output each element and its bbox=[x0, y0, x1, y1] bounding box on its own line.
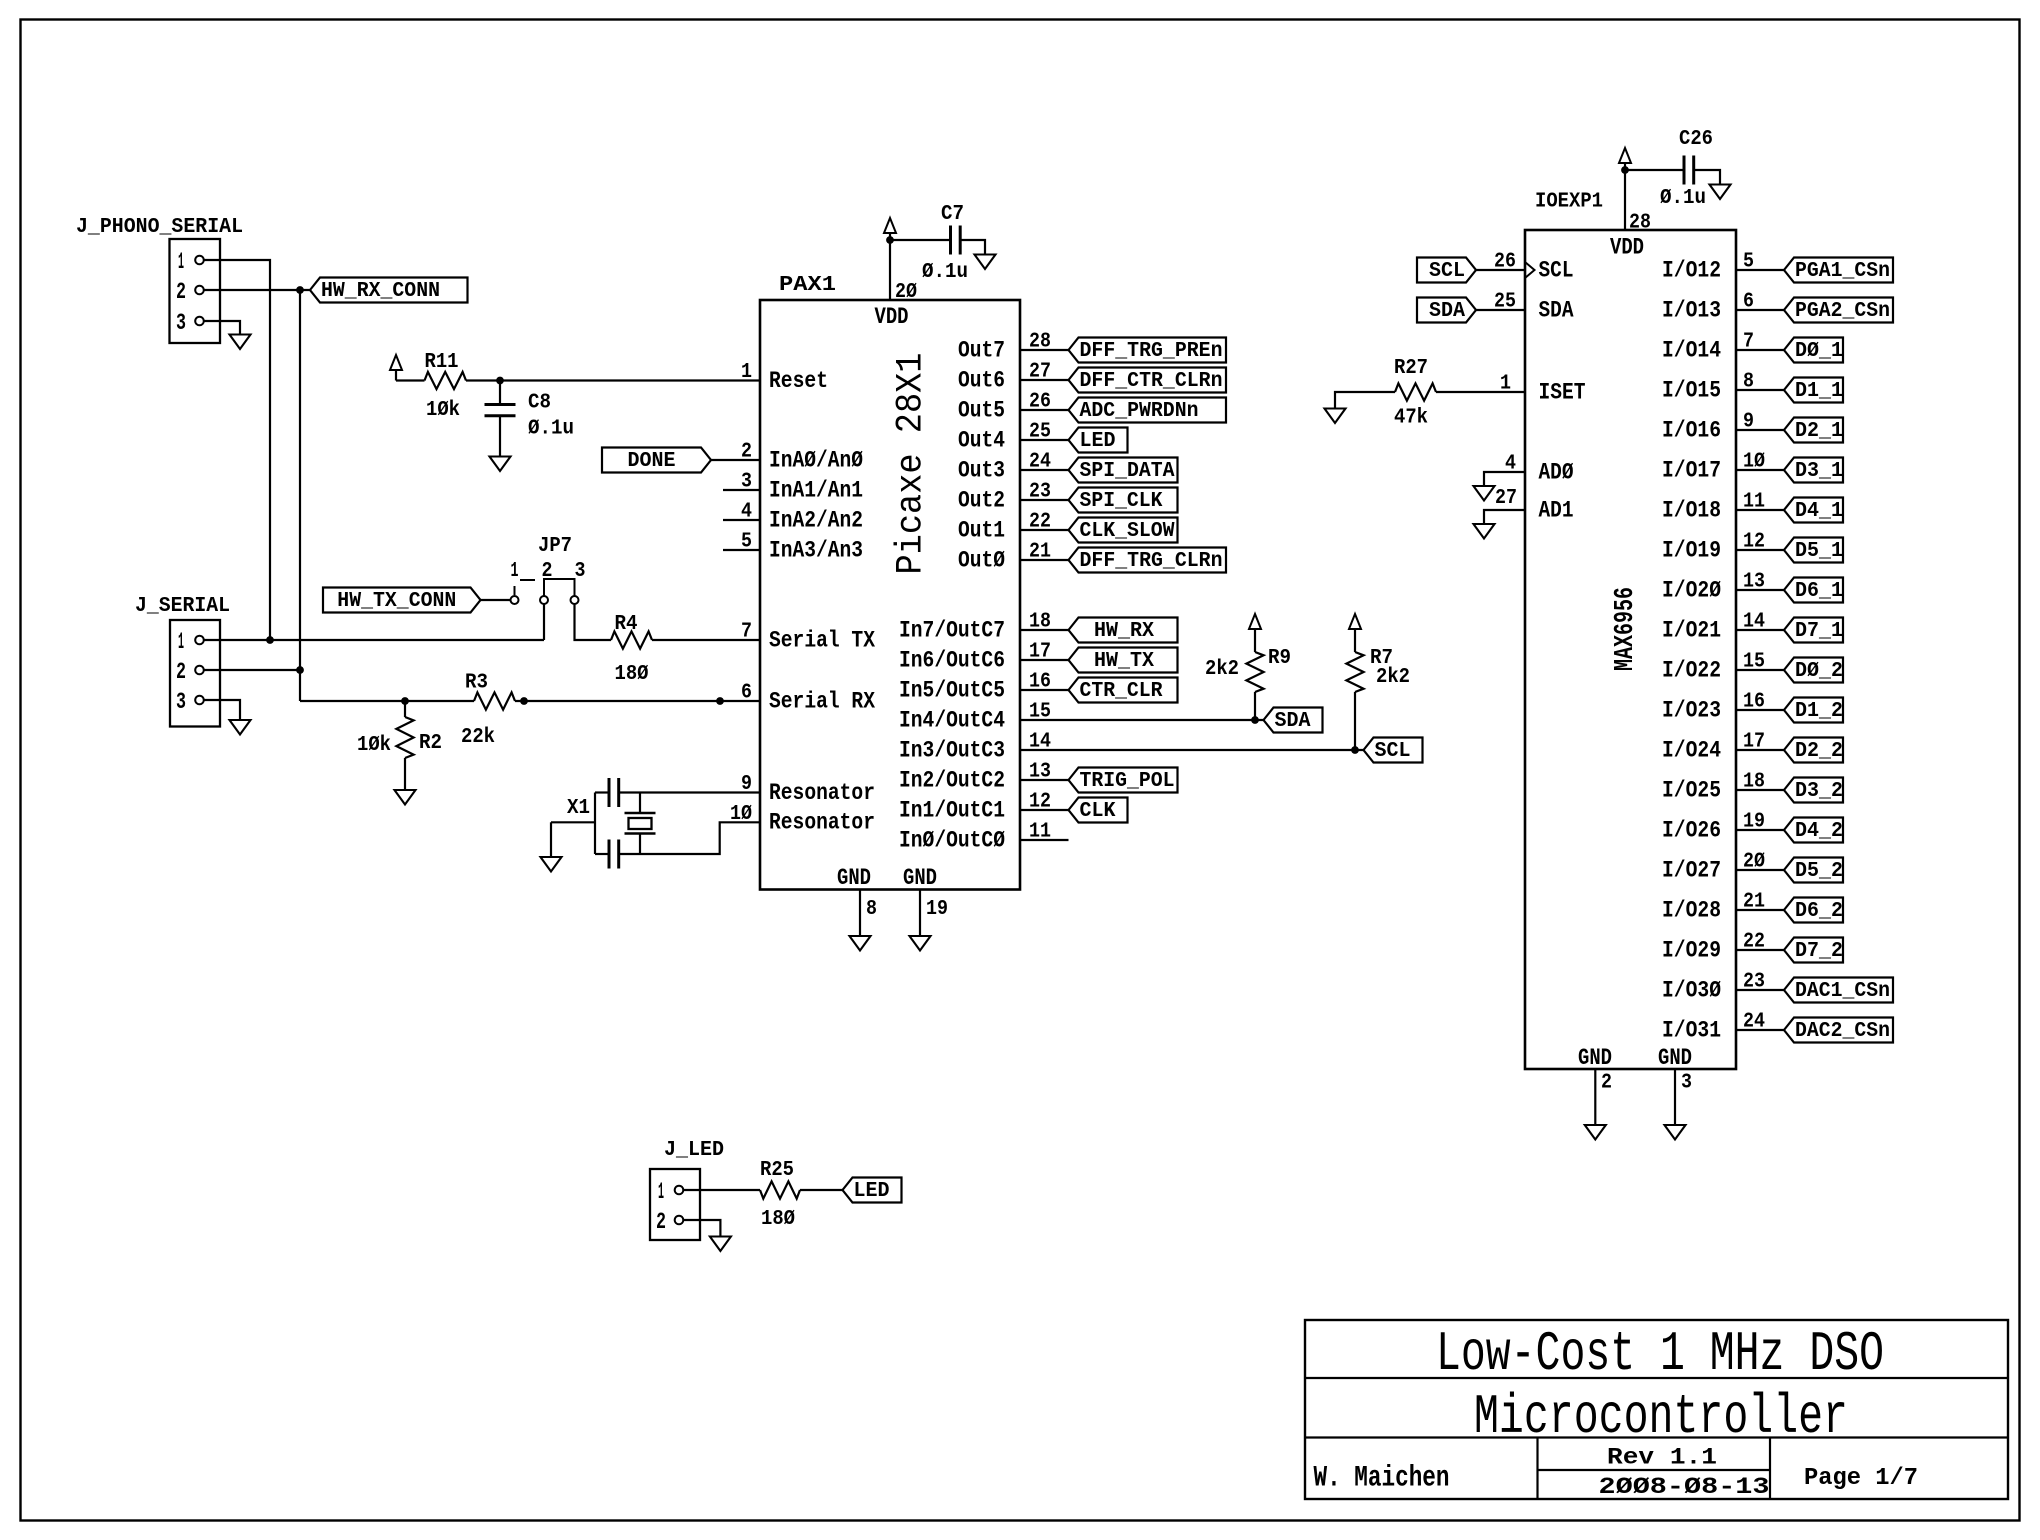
value 0.1u of C8 bbox=[528, 418, 574, 441]
svg-text:I/O16: I/O16 bbox=[1662, 417, 1721, 443]
connector J_PHONO_SERIAL body bbox=[170, 239, 221, 343]
svg-text:7: 7 bbox=[741, 621, 752, 644]
resonator bottom capacitor plates bbox=[609, 840, 619, 869]
wire PAX1 pin 17 to flag bbox=[1020, 659, 1069, 661]
connector J_PHONO_SERIAL pin 1 bbox=[178, 249, 204, 275]
svg-text:Low-Cost 1 MHz DSO: Low-Cost 1 MHz DSO bbox=[1436, 1322, 1884, 1386]
svg-text:Page 1/7: Page 1/7 bbox=[1804, 1465, 1918, 1492]
svg-text:19: 19 bbox=[926, 898, 948, 921]
net flag D1_2 bbox=[1784, 698, 1843, 724]
svg-text:3: 3 bbox=[1681, 1072, 1692, 1095]
pin 9 I/O16 of IOEXP1 bbox=[1662, 411, 1754, 444]
svg-text:GND: GND bbox=[1658, 1045, 1692, 1071]
svg-text:CTR_CLR: CTR_CLR bbox=[1080, 680, 1163, 703]
pin 6 I/O13 of IOEXP1 bbox=[1662, 291, 1754, 324]
pin 24 Out3 of PAX1 bbox=[958, 451, 1051, 484]
value 10k of R2 bbox=[357, 734, 391, 757]
pin 23 I/O30 of IOEXP1 bbox=[1662, 971, 1765, 1004]
ground at C7 bbox=[975, 255, 996, 270]
wire IOEXP1 pin 12 to flag bbox=[1736, 549, 1784, 551]
IC PAX1 refdes label bbox=[779, 274, 836, 297]
svg-text:VDD: VDD bbox=[875, 304, 909, 330]
svg-text:9: 9 bbox=[741, 773, 752, 796]
svg-text:D6_1: D6_1 bbox=[1795, 580, 1843, 603]
svg-text:CLK_SLOW: CLK_SLOW bbox=[1080, 520, 1175, 543]
net flag D6_1 bbox=[1784, 578, 1843, 604]
svg-text:D5_2: D5_2 bbox=[1795, 860, 1843, 883]
jumper JP7 pin 2 pad bbox=[540, 596, 548, 604]
svg-text:I/O27: I/O27 bbox=[1662, 857, 1721, 883]
svg-text:I/O18: I/O18 bbox=[1662, 497, 1721, 523]
resistor R2 bbox=[396, 717, 413, 758]
wire resonator bottom net bbox=[595, 853, 609, 855]
svg-text:I/O21: I/O21 bbox=[1662, 617, 1721, 643]
svg-text:SDA: SDA bbox=[1539, 297, 1574, 323]
wire PAX1 In3/OutC3 SCL net bbox=[1020, 749, 1364, 751]
wire VDD to R11 bbox=[396, 379, 425, 381]
pin 23 Out2 of PAX1 bbox=[958, 481, 1051, 514]
jumper JP7 label bbox=[538, 535, 572, 558]
junction HW_RX_CONN node bbox=[296, 286, 304, 294]
pin 10 Resonator of PAX1 bbox=[730, 803, 875, 836]
svg-text:D1_2: D1_2 bbox=[1795, 700, 1843, 723]
svg-text:Ø.1u: Ø.1u bbox=[528, 418, 574, 441]
connector J_SERIAL body bbox=[170, 620, 220, 727]
wire junction to C8 bbox=[499, 381, 501, 405]
net flag D2_2 bbox=[1784, 738, 1843, 764]
title block divider line 1 bbox=[1305, 1377, 2008, 1379]
net flag D7_2 bbox=[1784, 938, 1843, 964]
svg-text:C26: C26 bbox=[1679, 128, 1713, 151]
svg-text:D3_2: D3_2 bbox=[1795, 780, 1843, 803]
svg-text:C8: C8 bbox=[528, 392, 551, 415]
ground at X1 bbox=[541, 857, 562, 872]
svg-text:GND: GND bbox=[903, 865, 937, 891]
net flag HW_TX_CONN bbox=[323, 588, 481, 614]
svg-text:2Ø: 2Ø bbox=[895, 281, 917, 304]
svg-text:LED: LED bbox=[854, 1180, 890, 1203]
jumper JP7 pin 3 pad bbox=[571, 596, 579, 604]
IC PAX1 Picaxe 28X1 body bbox=[760, 300, 1020, 890]
svg-text:28: 28 bbox=[1629, 212, 1651, 235]
net flag SDA at IOEXP1 bbox=[1417, 298, 1476, 324]
svg-text:R9: R9 bbox=[1268, 647, 1291, 670]
value 2k2 of R9 bbox=[1205, 658, 1239, 681]
pin 6 Serial RX of PAX1 bbox=[741, 682, 875, 715]
svg-text:D5_1: D5_1 bbox=[1795, 540, 1843, 563]
wire IOEXP1 pin 8 to flag bbox=[1736, 389, 1784, 391]
svg-text:1: 1 bbox=[741, 361, 752, 384]
capacitor C7 bbox=[951, 226, 961, 255]
wire J_LED pin1 to R25 bbox=[683, 1189, 760, 1191]
wire IOEXP1 VDD stub pin 28 bbox=[1624, 170, 1626, 230]
svg-text:DFF_CTR_CLRn: DFF_CTR_CLRn bbox=[1080, 370, 1223, 393]
wire R9 to SDA bbox=[1254, 692, 1256, 720]
svg-text:MAX6956: MAX6956 bbox=[1611, 587, 1641, 671]
svg-text:I/O31: I/O31 bbox=[1662, 1017, 1721, 1043]
capacitor C26 bbox=[1684, 156, 1694, 185]
svg-text:1Øk: 1Øk bbox=[357, 734, 391, 757]
svg-text:ADC_PWRDNn: ADC_PWRDNn bbox=[1080, 400, 1199, 423]
svg-text:Out6: Out6 bbox=[958, 367, 1005, 393]
crystal element of X1 bbox=[625, 813, 656, 834]
wire PAX1 pin 13 to flag bbox=[1020, 779, 1069, 781]
svg-text:2k2: 2k2 bbox=[1205, 658, 1239, 681]
svg-text:I/O24: I/O24 bbox=[1662, 737, 1721, 763]
pin number 28 of IOEXP1 bbox=[1629, 212, 1651, 235]
svg-text:1: 1 bbox=[178, 629, 184, 655]
ground at C8 bbox=[490, 457, 511, 472]
svg-text:1: 1 bbox=[1500, 373, 1511, 396]
label R25 bbox=[760, 1159, 794, 1182]
pin 16 I/O23 of IOEXP1 bbox=[1662, 691, 1765, 724]
junction VDD/C26 bbox=[1621, 166, 1629, 174]
title block rev/date divider bbox=[1538, 1469, 1771, 1471]
pin 24 I/O31 of IOEXP1 bbox=[1662, 1011, 1765, 1044]
junction Reset/C8 node bbox=[496, 377, 504, 385]
svg-text:In4/OutC4: In4/OutC4 bbox=[899, 707, 1005, 733]
svg-text:Out1: Out1 bbox=[958, 517, 1005, 543]
net flag D5_2 bbox=[1784, 858, 1843, 884]
connector J_LED label bbox=[664, 1139, 724, 1162]
net flag DAC1_CSn bbox=[1784, 978, 1893, 1004]
svg-text:Ø.1u: Ø.1u bbox=[922, 261, 968, 284]
svg-text:3: 3 bbox=[176, 310, 186, 336]
svg-text:W. Maichen: W. Maichen bbox=[1314, 1462, 1450, 1496]
pin 5 I/O12 of IOEXP1 bbox=[1662, 251, 1754, 284]
svg-text:In5/OutC5: In5/OutC5 bbox=[899, 677, 1005, 703]
pin name VDD of PAX1 bbox=[875, 304, 909, 330]
svg-text:I/O25: I/O25 bbox=[1662, 777, 1721, 803]
connector J_PHONO_SERIAL pin 3 bbox=[176, 310, 204, 336]
capacitor C8 bbox=[485, 405, 516, 416]
net flag D2_1 bbox=[1784, 418, 1843, 444]
net flag DFF_TRG_CLRn bbox=[1069, 548, 1227, 574]
wire PAX1 pin 22 to flag bbox=[1020, 529, 1069, 531]
power VDD at R11 bbox=[390, 355, 402, 381]
ground at AD1 bbox=[1474, 524, 1495, 539]
jumper JP7 pin number 2 bbox=[542, 560, 553, 583]
pin 4 InA2/An2 of PAX1 bbox=[741, 501, 863, 534]
pin 7 Serial TX of PAX1 bbox=[741, 621, 875, 654]
net flag D4_1 bbox=[1784, 498, 1843, 524]
svg-text:TRIG_POL: TRIG_POL bbox=[1080, 770, 1175, 793]
net flag PGA1_CSn bbox=[1784, 258, 1893, 284]
junction J_SERIAL pin2 / trunk bbox=[296, 666, 304, 674]
pin 22 Out1 of PAX1 bbox=[958, 511, 1051, 544]
wire resonator left trunk bbox=[594, 793, 596, 855]
pin 11 In0/OutC0 of PAX1 bbox=[899, 821, 1051, 854]
svg-text:InA1/An1: InA1/An1 bbox=[769, 477, 863, 503]
ground at AD0 bbox=[1474, 486, 1495, 501]
svg-text:3: 3 bbox=[176, 689, 186, 715]
svg-text:HW_RX_CONN: HW_RX_CONN bbox=[321, 280, 440, 303]
wire R2 to ground bbox=[404, 758, 406, 790]
net flag LED bbox=[1069, 428, 1128, 454]
net flag D3_1 bbox=[1784, 458, 1843, 484]
pin 2 InA0/An0 of PAX1 bbox=[741, 441, 863, 474]
wire R4 to PAX1 Serial TX bbox=[652, 639, 760, 641]
svg-text:R4: R4 bbox=[615, 613, 638, 636]
svg-text:Ø.1u: Ø.1u bbox=[1660, 187, 1706, 210]
pin 8 I/O15 of IOEXP1 bbox=[1662, 371, 1754, 404]
wire J_SERIAL pin2 bbox=[204, 669, 300, 671]
svg-text:In7/OutC7: In7/OutC7 bbox=[899, 617, 1005, 643]
svg-text:X1: X1 bbox=[567, 797, 590, 820]
pin 21 Out0 of PAX1 bbox=[958, 541, 1051, 574]
net flag SCL bbox=[1364, 738, 1423, 764]
svg-text:R27: R27 bbox=[1394, 357, 1428, 380]
svg-text:I/O2Ø: I/O2Ø bbox=[1662, 577, 1721, 603]
net flag PGA2_CSn bbox=[1784, 298, 1893, 324]
svg-text:D1_1: D1_1 bbox=[1795, 380, 1843, 403]
wire X1 ground drop bbox=[550, 822, 552, 857]
svg-text:2: 2 bbox=[741, 441, 752, 464]
label R7 bbox=[1370, 647, 1393, 670]
wire R25 to LED flag bbox=[800, 1189, 843, 1191]
pin 4 AD0 of IOEXP1 bbox=[1505, 453, 1574, 486]
wire C7 to ground bbox=[960, 240, 985, 255]
wire PAX1 pin 27 to flag bbox=[1020, 379, 1069, 381]
net flag CTR_CLR bbox=[1069, 678, 1178, 704]
svg-text:In3/OutC3: In3/OutC3 bbox=[899, 737, 1005, 763]
resistor R3 bbox=[474, 692, 515, 709]
power VDD at R9 bbox=[1249, 614, 1261, 629]
title text Low-Cost 1 MHz DSO bbox=[1436, 1322, 1884, 1386]
net flag LED at J_LED bbox=[843, 1178, 902, 1204]
jumper JP7 pin 1 pad bbox=[511, 596, 519, 604]
junction R2 node bbox=[401, 697, 409, 705]
svg-text:D4_2: D4_2 bbox=[1795, 820, 1843, 843]
ground at C26 bbox=[1710, 185, 1731, 200]
wire HW_TX_CONN to JP7 pin1 bbox=[481, 599, 511, 601]
resistor R27 bbox=[1395, 383, 1436, 400]
resistor R7 bbox=[1346, 652, 1363, 692]
svg-text:6: 6 bbox=[741, 682, 752, 705]
pin 26 Out5 of PAX1 bbox=[958, 391, 1051, 424]
pin 28 Out7 of PAX1 bbox=[958, 331, 1051, 364]
wire top cap to PAX1 pin9 bbox=[619, 791, 760, 793]
net flag SDA bbox=[1264, 708, 1323, 734]
wire JP7 pin2 down to serial TX net bbox=[543, 604, 545, 640]
wire PAX1 pin 24 to flag bbox=[1020, 469, 1069, 471]
svg-text:D7_2: D7_2 bbox=[1795, 940, 1843, 963]
wire SCL flag to IOEXP1 bbox=[1475, 269, 1526, 271]
svg-text:J_PHONO_SERIAL: J_PHONO_SERIAL bbox=[76, 216, 243, 239]
junction SCL/R7 bbox=[1351, 746, 1359, 754]
svg-text:R2: R2 bbox=[419, 732, 442, 755]
svg-text:18Ø: 18Ø bbox=[761, 1208, 795, 1231]
pin 2 GND of IOEXP1 bbox=[1578, 1045, 1612, 1095]
svg-text:D4_1: D4_1 bbox=[1795, 500, 1843, 523]
pin 10 I/O17 of IOEXP1 bbox=[1662, 451, 1765, 484]
rev text Rev 1.1 bbox=[1607, 1445, 1717, 1471]
svg-text:GND: GND bbox=[1578, 1045, 1612, 1071]
svg-text:DØ_1: DØ_1 bbox=[1795, 340, 1843, 363]
wire IOEXP1 pin 24 to flag bbox=[1736, 1029, 1784, 1031]
wire IOEXP1 GND3 stub bbox=[1674, 1069, 1676, 1125]
connector J_LED body bbox=[650, 1169, 700, 1240]
resonator X1 label bbox=[567, 797, 590, 820]
svg-text:SCL: SCL bbox=[1375, 740, 1411, 763]
pin 15 I/O22 of IOEXP1 bbox=[1662, 651, 1765, 684]
connector J_SERIAL pin 2 bbox=[176, 659, 204, 685]
pin 15 In4/OutC4 of PAX1 bbox=[899, 701, 1051, 734]
wire PAX1 pin 16 to flag bbox=[1020, 689, 1069, 691]
wire IOEXP1 pin 10 to flag bbox=[1736, 469, 1784, 471]
svg-text:Out4: Out4 bbox=[958, 427, 1005, 453]
svg-text:1Øk: 1Øk bbox=[426, 399, 460, 422]
pin 3 InA1/An1 of PAX1 bbox=[741, 471, 863, 504]
wire AD0 to ground bbox=[1484, 472, 1525, 486]
svg-text:Out5: Out5 bbox=[958, 397, 1005, 423]
wire PAX1 pin 23 to flag bbox=[1020, 499, 1069, 501]
value 180 of R25 bbox=[761, 1208, 795, 1231]
junction J_SERIAL pin1 / J_PHONO pin1 bbox=[266, 636, 274, 644]
svg-text:ISET: ISET bbox=[1539, 379, 1586, 405]
label C7 bbox=[941, 203, 964, 226]
svg-text:JP7: JP7 bbox=[538, 535, 572, 558]
pin 22 I/O29 of IOEXP1 bbox=[1662, 931, 1765, 964]
IC IOEXP1 part name MAX6956 bbox=[1611, 587, 1641, 671]
pin 1 ISET of IOEXP1 bbox=[1500, 373, 1586, 406]
svg-text:I/O15: I/O15 bbox=[1662, 377, 1721, 403]
svg-text:Serial RX: Serial RX bbox=[769, 688, 875, 714]
wire PAX1 pin 26 to flag bbox=[1020, 409, 1069, 411]
title block vertical divider right bbox=[1769, 1438, 1771, 1500]
wire R7 to SCL bbox=[1354, 692, 1356, 750]
svg-text:CLK: CLK bbox=[1080, 800, 1116, 823]
pin number 20 of PAX1 bbox=[895, 281, 917, 304]
net flag D6_2 bbox=[1784, 898, 1843, 924]
net flag D5_1 bbox=[1784, 538, 1843, 564]
pin 16 In5/OutC5 of PAX1 bbox=[899, 671, 1051, 704]
svg-text:I/O19: I/O19 bbox=[1662, 537, 1721, 563]
wire C8 to ground bbox=[499, 416, 501, 457]
ground at R27 bbox=[1325, 409, 1346, 424]
value 0.1u of C26 bbox=[1660, 187, 1706, 210]
wire IOEXP1 pin 15 to flag bbox=[1736, 669, 1784, 671]
pin 17 I/O24 of IOEXP1 bbox=[1662, 731, 1765, 764]
pin 12 In1/OutC1 of PAX1 bbox=[899, 791, 1051, 824]
pin 7 I/O14 of IOEXP1 bbox=[1662, 331, 1754, 364]
wire J_PHONO pin1 to vertical bbox=[204, 260, 270, 640]
date text 2008-08-13 bbox=[1599, 1474, 1770, 1500]
svg-text:AD1: AD1 bbox=[1539, 497, 1574, 523]
svg-text:InA3/An3: InA3/An3 bbox=[769, 537, 863, 563]
svg-text:Out3: Out3 bbox=[958, 457, 1005, 483]
svg-text:SPI_CLK: SPI_CLK bbox=[1080, 490, 1163, 513]
jumper JP7 closed bracket 2-3 bbox=[544, 579, 575, 596]
svg-text:HW_TX: HW_TX bbox=[1094, 650, 1154, 673]
svg-text:LED: LED bbox=[1080, 430, 1116, 453]
wire stub PAX1 pin at y550 bbox=[723, 549, 760, 551]
svg-text:D6_2: D6_2 bbox=[1795, 900, 1843, 923]
ground at J_SERIAL pin 3 bbox=[230, 720, 251, 735]
svg-text:InØ/OutCØ: InØ/OutCØ bbox=[899, 827, 1005, 853]
wire trunk to Serial RX run bbox=[300, 700, 474, 702]
wire C26 to ground bbox=[1694, 170, 1720, 185]
ground at R2 bbox=[395, 790, 416, 805]
net flag DFF_TRG_PREn bbox=[1069, 338, 1227, 364]
pin name VDD of IOEXP1 bbox=[1610, 235, 1644, 261]
net flag SPI_DATA bbox=[1069, 458, 1178, 484]
svg-text:InA2/An2: InA2/An2 bbox=[769, 507, 863, 533]
wire PAX1 In4/OutC4 SDA net bbox=[1020, 719, 1264, 721]
net flag HW_RX bbox=[1069, 618, 1178, 644]
junction Serial RX near pin bbox=[716, 697, 724, 705]
junction after R3 bbox=[520, 697, 528, 705]
svg-text:IOEXP1: IOEXP1 bbox=[1535, 191, 1603, 214]
svg-text:I/O17: I/O17 bbox=[1662, 457, 1721, 483]
pin 26 SCL of IOEXP1 bbox=[1494, 251, 1574, 284]
net flag HW_TX bbox=[1069, 648, 1178, 674]
pin 13 In2/OutC2 of PAX1 bbox=[899, 761, 1051, 794]
title text Microcontroller bbox=[1474, 1385, 1848, 1449]
resistor R4 bbox=[611, 631, 652, 648]
svg-text:22k: 22k bbox=[461, 726, 495, 749]
svg-text:I/O12: I/O12 bbox=[1662, 257, 1721, 283]
svg-text:I/O28: I/O28 bbox=[1662, 897, 1721, 923]
svg-text:2: 2 bbox=[176, 279, 186, 305]
jumper JP7 pin number 3 bbox=[575, 560, 586, 583]
wire R11 to PAX1 Reset bbox=[466, 379, 760, 381]
svg-text:D3_1: D3_1 bbox=[1795, 460, 1843, 483]
wire J_LED pin2 to ground bbox=[683, 1220, 720, 1237]
wire IOEXP1 pin 18 to flag bbox=[1736, 789, 1784, 791]
wire JP7 pin3 down to R4 bbox=[575, 604, 612, 640]
wire DONE to PAX1 pin2 bbox=[711, 459, 760, 461]
svg-text:InAØ/AnØ: InAØ/AnØ bbox=[769, 447, 863, 473]
svg-text:I/O14: I/O14 bbox=[1662, 337, 1721, 363]
wire VDD to C26 bbox=[1625, 169, 1684, 171]
wire J_PHONO pin2 to HW_RX_CONN bbox=[204, 289, 310, 291]
label R3 bbox=[465, 672, 488, 695]
net flag HW_RX_CONN bbox=[310, 278, 468, 304]
wire IOEXP1 pin 6 to flag bbox=[1736, 309, 1784, 311]
svg-text:SCL: SCL bbox=[1539, 257, 1574, 283]
title block divider line 2 bbox=[1305, 1436, 2008, 1438]
connector J_SERIAL pin 1 bbox=[178, 629, 204, 655]
svg-text:Serial TX: Serial TX bbox=[769, 627, 875, 653]
net flag DONE bbox=[602, 448, 711, 474]
svg-text:1: 1 bbox=[658, 1179, 664, 1205]
wire R3 to PAX1 Serial RX bbox=[515, 700, 760, 702]
svg-text:SCL: SCL bbox=[1429, 260, 1465, 283]
svg-text:D2_1: D2_1 bbox=[1795, 420, 1843, 443]
net flag D0_2 bbox=[1784, 658, 1843, 684]
wire IOEXP1 pin 13 to flag bbox=[1736, 589, 1784, 591]
svg-text:C7: C7 bbox=[941, 203, 964, 226]
value 0.1u of C7 bbox=[922, 261, 968, 284]
svg-text:D7_1: D7_1 bbox=[1795, 620, 1843, 643]
net flag D1_1 bbox=[1784, 378, 1843, 404]
net flag CLK_SLOW bbox=[1069, 518, 1178, 544]
wire PAX1 pin 28 to flag bbox=[1020, 349, 1069, 351]
wire PAX1 pin 18 to flag bbox=[1020, 629, 1069, 631]
label R11 bbox=[425, 351, 459, 374]
net flag SPI_CLK bbox=[1069, 488, 1178, 514]
svg-text:47k: 47k bbox=[1394, 407, 1428, 430]
page text Page 1/7 bbox=[1804, 1465, 1918, 1492]
power VDD arrow above IOEXP1 bbox=[1619, 148, 1631, 170]
wire crystal to bottom net bbox=[639, 834, 641, 855]
svg-text:OutØ: OutØ bbox=[958, 547, 1005, 573]
wire IOEXP1 pin 11 to flag bbox=[1736, 509, 1784, 511]
wire PAX1 pin 12 to flag bbox=[1020, 809, 1069, 811]
wire VDD to C7 bbox=[890, 239, 951, 241]
svg-text:DAC1_CSn: DAC1_CSn bbox=[1795, 980, 1890, 1003]
